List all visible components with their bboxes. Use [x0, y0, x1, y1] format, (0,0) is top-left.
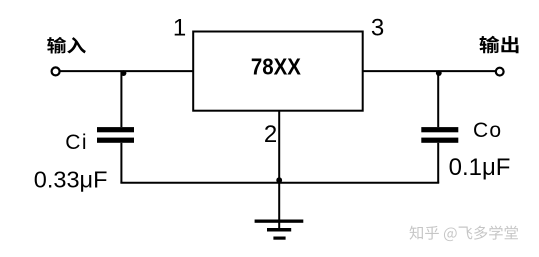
- svg-text:0.33μF: 0.33μF: [34, 167, 108, 193]
- ground symbol: [255, 220, 304, 240]
- wire ground rail: [120, 182, 439, 184]
- net label input 输入: [47, 37, 86, 54]
- net label output 输出: [480, 36, 519, 54]
- input terminal circle: [52, 67, 60, 75]
- capacitor Ci plates: [97, 127, 134, 143]
- svg-text:2: 2: [264, 121, 277, 148]
- svg-text:0.1μF: 0.1μF: [449, 154, 511, 181]
- node junction dot pin2/ground rail: [276, 177, 282, 183]
- node junction dot input/Ci: [121, 70, 127, 76]
- output terminal circle: [496, 68, 504, 76]
- wire right branch upper: output node to Co top: [437, 71, 439, 127]
- watermark text: [409, 225, 517, 241]
- capacitor Co plates: [421, 127, 458, 143]
- wire ground stub below rail: [278, 183, 280, 229]
- svg-text:3: 3: [371, 15, 384, 42]
- wire left branch lower: Ci bottom to ground rail: [120, 143, 122, 183]
- svg-text:Co: Co: [473, 119, 502, 142]
- svg-text:1: 1: [173, 15, 186, 42]
- svg-text:Ci: Ci: [65, 131, 88, 154]
- svg-text:78XX: 78XX: [251, 54, 301, 80]
- wire left branch upper: input node to Ci top: [120, 71, 122, 127]
- wire pin 3 to output terminal: [363, 70, 496, 72]
- regulator U1 box: [193, 32, 363, 111]
- wire pin 2 from box to ground rail: [278, 111, 280, 183]
- wire input terminal to pin 1: [60, 70, 193, 72]
- wire right branch lower: Co bottom to ground rail: [437, 143, 439, 183]
- node junction dot output/Co: [436, 70, 442, 76]
